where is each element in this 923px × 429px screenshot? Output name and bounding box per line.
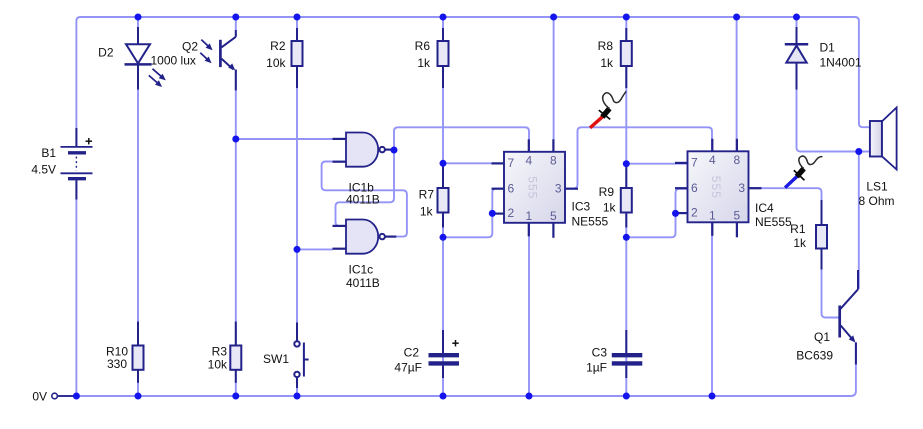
label R10	[106, 345, 128, 359]
junction node 8	[623, 234, 630, 241]
svg-text:8: 8	[734, 153, 741, 167]
NAND gate IC1b	[333, 133, 397, 167]
svg-text:IC4: IC4	[755, 201, 774, 215]
label C2	[404, 346, 420, 360]
svg-text:IC3: IC3	[572, 200, 591, 214]
svg-text:R3: R3	[212, 345, 228, 359]
label R9	[599, 185, 615, 199]
junction top rail 3	[294, 14, 301, 21]
op-amp timer IC3 555	[492, 139, 579, 238]
label 0V	[32, 390, 47, 404]
svg-text:SW1: SW1	[263, 352, 289, 366]
wire R8/R9/C3 column	[625, 17, 627, 396]
wire R6/R7/C2 column	[442, 17, 444, 396]
svg-text:R2: R2	[270, 39, 286, 53]
svg-text:4.5V: 4.5V	[31, 163, 56, 177]
wire node R8/R9 junction to IC4 pin 7	[626, 163, 688, 165]
value 10k (R2)	[266, 56, 286, 70]
junction 0V rail 4	[294, 393, 301, 400]
value 1k (R9)	[603, 201, 617, 215]
label R1	[790, 222, 806, 236]
value 1k (R1)	[793, 236, 807, 250]
value 4011B (IC1b)	[346, 193, 380, 207]
phototransistor Q2 with light input arrows	[200, 30, 236, 90]
label Q2	[182, 40, 198, 54]
svg-text:1k: 1k	[600, 56, 614, 70]
junction 0V rail 8	[709, 393, 716, 400]
svg-text:Q2: Q2	[182, 40, 198, 54]
svg-text:1k: 1k	[417, 56, 431, 70]
speaker LS1	[870, 108, 897, 170]
ground terminal 0V	[52, 393, 77, 399]
label R8	[598, 39, 614, 53]
capacitor C3 1uF	[612, 330, 643, 378]
svg-text:7: 7	[691, 156, 698, 170]
value 330	[107, 357, 127, 371]
label IC1c	[349, 263, 374, 277]
svg-text:555: 555	[526, 176, 540, 199]
wire node R7/C2 junction to IC3 pins 2 and 6	[443, 189, 504, 238]
svg-text:1k: 1k	[420, 205, 434, 219]
junction node 2	[294, 246, 301, 253]
label IC3	[572, 200, 591, 214]
junction 0V rail 1	[73, 393, 80, 400]
junction node 6	[489, 210, 496, 217]
junction node 5	[440, 234, 447, 241]
junction 0V rail 7	[623, 393, 630, 400]
junction 0V rail 5	[440, 393, 447, 400]
resistor R1	[816, 200, 827, 270]
resistor R7	[438, 163, 449, 227]
resistor R6	[438, 28, 449, 88]
svg-text:6: 6	[691, 181, 698, 195]
junction node 1	[232, 136, 239, 143]
svg-text:1k: 1k	[603, 201, 617, 215]
svg-text:B1: B1	[41, 146, 56, 160]
junction top rail 1	[135, 14, 142, 21]
junction node 9	[672, 210, 679, 217]
label D1	[820, 41, 836, 55]
svg-text:4: 4	[525, 153, 532, 167]
label IC1b	[349, 181, 375, 195]
svg-text:1: 1	[525, 209, 532, 223]
wire 0V bottom rail and Q1 emitter riser	[58, 342, 856, 396]
value NE555 (IC4)	[755, 215, 792, 229]
value 1µF	[586, 361, 607, 375]
wire Q2 collector from top rail	[235, 17, 237, 37]
svg-text:1: 1	[709, 208, 716, 222]
wire IC1b output to IC1c input A (latch feedback)	[336, 150, 395, 226]
label Q1	[814, 330, 830, 344]
junction node 10	[855, 148, 862, 155]
junction 0V rail 6	[526, 393, 533, 400]
junction top rail 4	[440, 14, 447, 21]
junction top rail 6	[623, 14, 630, 21]
junction 0V rail 2	[135, 393, 142, 400]
svg-text:Q1: Q1	[814, 330, 830, 344]
svg-text:555: 555	[709, 176, 723, 199]
label R2	[270, 39, 286, 53]
svg-text:3: 3	[555, 181, 562, 195]
svg-text:R9: R9	[599, 185, 615, 199]
wire node R9/C3 junction to IC4 pins 2 and 6	[626, 189, 688, 238]
value 1k (R6)	[417, 56, 431, 70]
svg-text:C3: C3	[592, 346, 608, 360]
wire R2 to SW1 column upper	[296, 17, 298, 341]
value 1k (R8)	[600, 56, 614, 70]
wire B1 negative to 0V rail	[75, 179, 77, 397]
wire top rail to IC4 pin 8	[736, 17, 738, 151]
junction node 7	[623, 160, 630, 167]
label C3	[592, 346, 608, 360]
junction 0V rail 3	[232, 393, 239, 400]
resistor R3	[230, 322, 241, 383]
svg-text:8 Ohm: 8 Ohm	[858, 194, 894, 208]
value 10k (R3)	[208, 358, 228, 372]
wire positive supply top rail with left drop to B1 and right drop to LS1	[76, 17, 872, 147]
wire Q2 emitter to R3 column	[235, 70, 237, 397]
svg-text:5: 5	[734, 208, 741, 222]
svg-text:R1: R1	[790, 222, 806, 236]
junction node 4	[440, 160, 447, 167]
blue probe on node IC4 pin3	[785, 156, 822, 188]
svg-text:LS1: LS1	[866, 180, 888, 194]
svg-text:4: 4	[709, 153, 716, 167]
value 1N4001	[820, 56, 862, 70]
svg-text:R7: R7	[419, 188, 435, 202]
resistor R8	[621, 28, 632, 88]
value NE555 (IC3)	[572, 215, 609, 229]
svg-text:10k: 10k	[266, 56, 286, 70]
NAND gate IC1c	[333, 220, 397, 254]
svg-text:NE555: NE555	[572, 215, 609, 229]
svg-text:10k: 10k	[208, 358, 228, 372]
wire IC1b output to IC3 pin 4 (reset)	[394, 127, 529, 152]
wire D1 anode to LS1 bottom terminal	[797, 17, 873, 152]
label D2	[98, 46, 114, 60]
label LS1	[866, 180, 888, 194]
svg-text:R6: R6	[415, 39, 431, 53]
wire IC3 pin 3 output to IC4 pin 4	[565, 127, 712, 188]
svg-text:3: 3	[738, 181, 745, 195]
wire node R2/SW1 junction to IC1c input B	[297, 248, 333, 250]
battery B1 4.5V	[61, 128, 93, 200]
svg-text:BC639: BC639	[796, 349, 833, 363]
svg-text:IC1c: IC1c	[349, 263, 374, 277]
svg-text:330: 330	[107, 357, 127, 371]
svg-text:0V: 0V	[32, 390, 47, 404]
svg-text:47µF: 47µF	[394, 361, 422, 375]
svg-text:5: 5	[550, 209, 557, 223]
wire top rail to IC3 pin 8	[553, 17, 555, 152]
svg-text:D2: D2	[98, 46, 114, 60]
svg-text:R8: R8	[598, 39, 614, 53]
push switch SW1	[294, 323, 308, 389]
value 8 Ohm	[858, 194, 894, 208]
svg-text:2: 2	[691, 206, 698, 220]
svg-text:4011B: 4011B	[346, 276, 380, 290]
svg-text:D1: D1	[820, 41, 836, 55]
diode D1	[785, 27, 808, 90]
wire IC3 pin 1 to 0V rail	[528, 223, 530, 396]
wire IC1c output to IC1b input B (latch feedback)	[322, 162, 407, 237]
label IC4	[755, 201, 774, 215]
value 4011B (IC1c)	[346, 276, 380, 290]
value 1k (R7)	[420, 205, 434, 219]
svg-text:1N4001: 1N4001	[820, 56, 862, 70]
svg-text:2: 2	[508, 206, 515, 220]
red probe on node IC3 pin3	[590, 91, 626, 128]
resistor R10	[133, 322, 144, 383]
value 47µF	[394, 361, 422, 375]
resistor R2	[292, 28, 303, 88]
svg-text:6: 6	[508, 181, 515, 195]
junction top rail 8	[793, 14, 800, 21]
wire IC4 pin 3 output to R1 and Q1 base	[749, 188, 840, 317]
svg-text:1µF: 1µF	[586, 361, 607, 375]
svg-text:NE555: NE555	[755, 215, 792, 229]
junction top rail 7	[733, 14, 740, 21]
junction top rail 2	[232, 14, 239, 21]
wire D2 cathode to R10 to 0V rail (node LED column)	[137, 17, 139, 396]
value 4.5V	[31, 163, 56, 177]
svg-text:8: 8	[550, 153, 557, 167]
capacitor C2 47uF	[429, 330, 460, 378]
label R3	[212, 345, 228, 359]
svg-text:4011B: 4011B	[346, 193, 380, 207]
LED D2 with emission arrows	[125, 27, 166, 90]
junction node 3	[391, 147, 398, 154]
label R6	[415, 39, 431, 53]
transistor Q1	[840, 270, 858, 365]
wire IC4 pin 1 to 0V rail	[711, 223, 713, 396]
wire node Q2/R3 junction to IC1b input A	[236, 138, 333, 140]
wire SW1 to 0V rail	[296, 377, 298, 396]
wire node R6/R7 junction to IC3 pin 7	[443, 162, 504, 164]
timer IC4 555	[675, 139, 762, 238]
label R7	[419, 188, 435, 202]
svg-text:C2: C2	[404, 346, 420, 360]
junction top rail 5	[550, 14, 557, 21]
svg-text:1000 lux: 1000 lux	[151, 54, 196, 68]
resistor R9	[621, 164, 632, 228]
label B1	[41, 146, 56, 160]
value 1000 lux	[151, 54, 196, 68]
wire node LS1/D1 junction to Q1 collector	[858, 152, 860, 290]
label SW1	[263, 352, 289, 366]
svg-text:1k: 1k	[793, 236, 807, 250]
value BC639	[796, 349, 833, 363]
svg-text:7: 7	[508, 156, 515, 170]
